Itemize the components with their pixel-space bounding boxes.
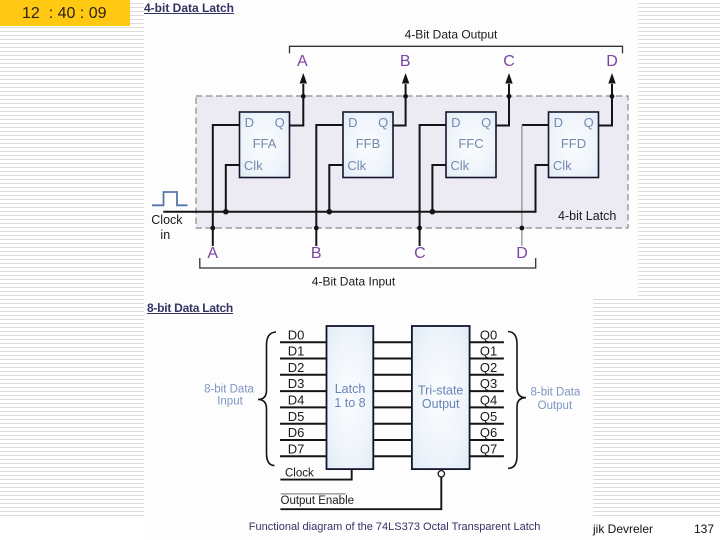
overline active-low OE: [281, 493, 346, 495]
svg-text:D1: D1: [288, 344, 305, 359]
wire clock bus: [163, 211, 536, 213]
svg-text:1 to 8: 1 to 8: [334, 396, 365, 410]
label 8-bit Data Output: [530, 387, 580, 412]
label 8-bit Data Input: [204, 384, 254, 408]
svg-text:Clock: Clock: [151, 213, 183, 227]
svg-text:Clk: Clk: [244, 158, 263, 173]
wires latch to tri-state: [373, 342, 412, 456]
svg-text:Q7: Q7: [480, 441, 497, 456]
input bracket: [200, 258, 536, 268]
wire D6: [280, 439, 327, 441]
wire clk stub FFC: [432, 165, 446, 212]
svg-text:Q: Q: [481, 115, 491, 130]
wire D0: [280, 341, 327, 343]
svg-text:Q3: Q3: [480, 376, 497, 391]
inverter bubble on OE: [438, 471, 444, 477]
latch block U1: [327, 326, 374, 469]
svg-text:Q: Q: [584, 115, 594, 130]
wire output enable to tri-state block: [280, 477, 441, 509]
clock display yellow box: [0, 0, 130, 26]
svg-text:Output: Output: [422, 397, 460, 411]
svg-text:B: B: [400, 53, 411, 70]
wire FFD.Q to output D with arrow: [599, 73, 616, 126]
wire Q5: [470, 423, 504, 425]
footer page number 137: [694, 522, 714, 536]
footer course name (partially covered): [593, 522, 653, 536]
title 8-bit Data Latch: [147, 301, 233, 315]
svg-text:A: A: [297, 53, 308, 70]
svg-text:D: D: [606, 53, 618, 70]
wire Q1: [470, 358, 504, 360]
flip-flop FFA: [240, 112, 290, 178]
svg-text:Tri-state: Tri-state: [418, 383, 463, 397]
svg-text:4-bit Latch: 4-bit Latch: [558, 209, 616, 223]
svg-text:D: D: [348, 115, 357, 130]
svg-text:Q1: Q1: [480, 344, 497, 359]
wire clock to latch block: [280, 469, 351, 480]
junction clk FFA: [223, 209, 229, 215]
wire D4: [280, 406, 327, 408]
svg-text:FFB: FFB: [356, 136, 381, 151]
wire FFC.Q to output C with arrow: [496, 73, 513, 126]
junction clk FFB: [327, 209, 333, 215]
wire Q4: [470, 406, 504, 408]
svg-text:Q4: Q4: [480, 393, 497, 408]
junction C at latch border: [417, 226, 422, 231]
svg-text:D: D: [516, 245, 528, 262]
tri-state block U2: [412, 326, 470, 469]
brace 8-bit input: [258, 332, 276, 466]
svg-text:Clk: Clk: [450, 158, 469, 173]
svg-text:B: B: [311, 245, 322, 262]
wire Q7: [470, 455, 504, 457]
wire D1: [280, 358, 327, 360]
svg-text:D5: D5: [288, 409, 305, 424]
svg-text:D7: D7: [288, 441, 305, 456]
output bracket: [290, 46, 623, 53]
wire clk stub FFB: [329, 165, 343, 212]
svg-text:Output Enable: Output Enable: [281, 495, 355, 507]
wire FFB.Q to output B with arrow: [393, 73, 409, 126]
svg-text:Latch: Latch: [335, 382, 366, 396]
svg-text:in: in: [160, 228, 170, 242]
svg-text:D: D: [451, 115, 460, 130]
svg-text:D2: D2: [288, 360, 305, 375]
svg-text:8-bit Data: 8-bit Data: [204, 384, 254, 396]
wire D5: [280, 423, 327, 425]
svg-text:Q0: Q0: [480, 327, 497, 342]
svg-text:Clk: Clk: [553, 158, 572, 173]
junction A at latch border: [210, 226, 215, 231]
wire FFA.Q to output A with arrow: [290, 73, 308, 126]
svg-text:Q: Q: [378, 115, 388, 130]
svg-text:D: D: [554, 115, 563, 130]
label Clock in: [151, 213, 183, 242]
wire Q3: [470, 390, 504, 392]
wire clk stub FFD: [536, 165, 549, 212]
svg-text:Clock: Clock: [285, 467, 314, 479]
wire data input D to FFD.D (horizontal): [522, 124, 549, 126]
svg-text:Q2: Q2: [480, 360, 497, 375]
svg-text:Clk: Clk: [347, 158, 366, 173]
svg-text:D6: D6: [288, 425, 305, 440]
svg-text:D3: D3: [288, 376, 305, 391]
4-bit latch dashed enclosure: [196, 96, 628, 228]
wire data input D vertical (thin): [521, 125, 523, 246]
svg-text:FFA: FFA: [253, 136, 277, 151]
svg-text:4-Bit Data Output: 4-Bit Data Output: [405, 28, 498, 42]
upper white content panel: [144, 0, 638, 297]
svg-text:Q: Q: [275, 115, 285, 130]
wire Q2: [470, 374, 504, 376]
clock pulse symbol: [152, 192, 188, 205]
junction B at latch border: [314, 226, 319, 231]
wire D3: [280, 390, 327, 392]
wire clk stub FFA: [226, 165, 240, 212]
svg-text:D4: D4: [288, 393, 305, 408]
wire D7: [280, 455, 327, 457]
flip-flop FFC: [446, 112, 496, 178]
wire data input B to FFB.D: [316, 125, 343, 246]
wire data input C to FFC.D: [420, 125, 446, 246]
lower white content panel: [144, 297, 593, 540]
wire Q6: [470, 439, 504, 441]
svg-text:FFD: FFD: [561, 136, 586, 151]
wire Q0: [470, 341, 504, 343]
title 4-bit Data Latch: [144, 1, 234, 15]
svg-text:Output: Output: [538, 400, 573, 412]
svg-text:C: C: [414, 245, 426, 262]
svg-text:Input: Input: [217, 396, 243, 408]
wire data input A to FFA.D: [213, 125, 240, 246]
svg-text:D: D: [245, 115, 254, 130]
svg-text:Q5: Q5: [480, 409, 497, 424]
clock display time text: [22, 5, 130, 23]
svg-text:FFC: FFC: [458, 136, 483, 151]
svg-text:Functional diagram of the 74LS: Functional diagram of the 74LS373 Octal …: [249, 521, 541, 533]
svg-text:8-bit Data: 8-bit Data: [530, 387, 580, 399]
wire D2: [280, 374, 327, 376]
flip-flop FFB: [343, 112, 393, 178]
svg-text:D0: D0: [288, 327, 305, 342]
junction clk FFC: [430, 209, 436, 215]
svg-text:A: A: [207, 245, 218, 262]
junction D at latch border: [520, 226, 525, 231]
flip-flop FFD: [549, 112, 599, 178]
svg-text:Q6: Q6: [480, 425, 497, 440]
svg-text:C: C: [503, 53, 515, 70]
svg-text:4-Bit Data Input: 4-Bit Data Input: [312, 274, 396, 288]
brace 8-bit output: [508, 332, 526, 469]
